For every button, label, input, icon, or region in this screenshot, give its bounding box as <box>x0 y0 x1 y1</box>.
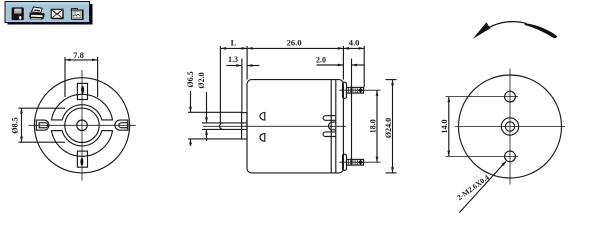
svg-text:26.0: 26.0 <box>287 38 302 48</box>
svg-text:14.0: 14.0 <box>440 120 449 134</box>
svg-text:Ø2.0: Ø2.0 <box>197 72 206 88</box>
svg-text:7.8: 7.8 <box>73 50 84 60</box>
svg-text:1.3: 1.3 <box>228 55 238 64</box>
svg-text:2.0: 2.0 <box>316 56 326 65</box>
svg-text:18.0: 18.0 <box>369 119 378 133</box>
svg-text:Ø8.5: Ø8.5 <box>11 117 20 133</box>
svg-text:4.0: 4.0 <box>349 38 360 48</box>
svg-text:Ø24.0: Ø24.0 <box>384 118 393 138</box>
svg-text:Ø6.5: Ø6.5 <box>186 71 195 87</box>
svg-text:L: L <box>231 38 237 48</box>
